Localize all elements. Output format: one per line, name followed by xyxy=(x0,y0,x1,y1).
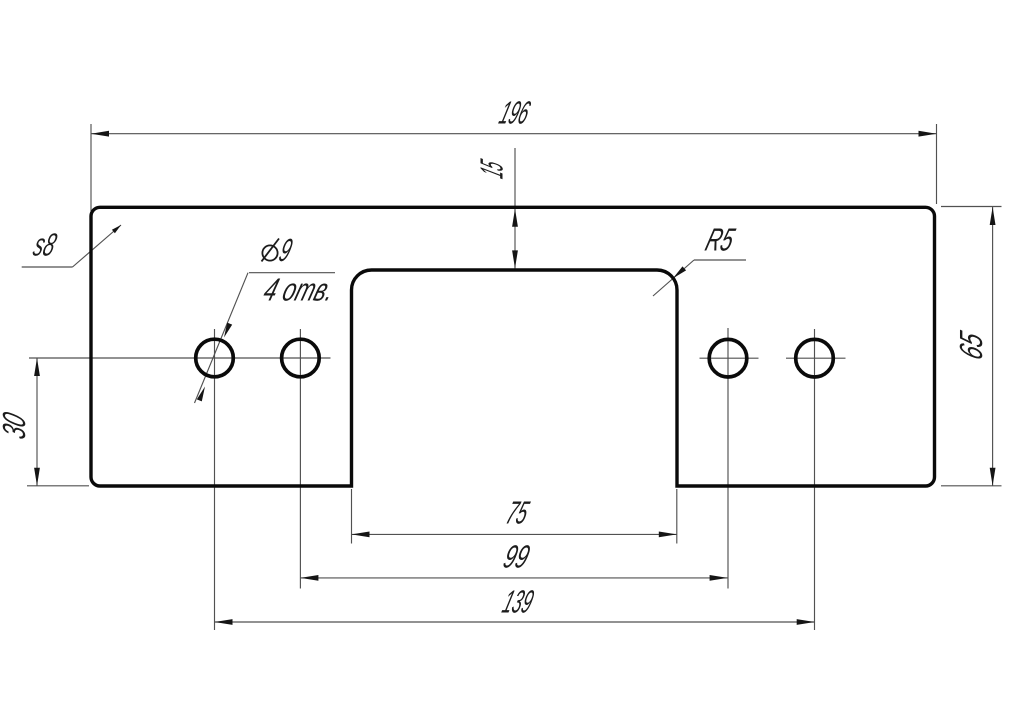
svg-text:4 отв.: 4 отв. xyxy=(259,273,339,309)
